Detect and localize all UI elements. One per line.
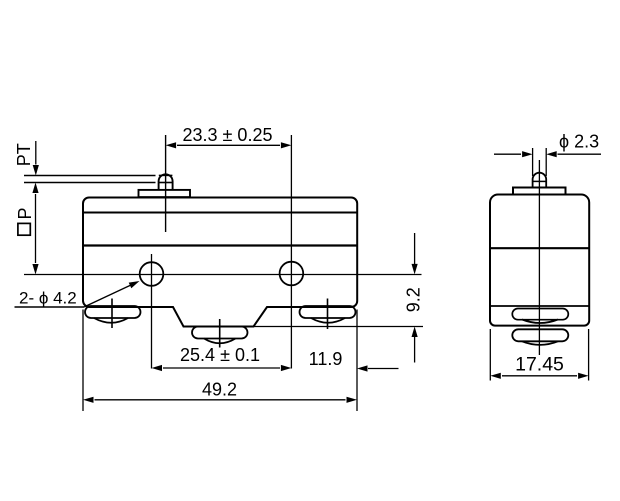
extension line left 17.45 <box>489 329 491 381</box>
svg-text:25.4 ± 0.1: 25.4 ± 0.1 <box>180 345 260 365</box>
operating position line <box>24 182 156 184</box>
dim line 49.2 <box>95 399 346 401</box>
extension line left 49.2 <box>82 310 84 412</box>
PT arrow <box>35 141 37 165</box>
svg-text:2- ϕ 4.2: 2- ϕ 4.2 <box>19 289 77 308</box>
side view centerline <box>538 160 540 355</box>
right hole vertical centerline / extension <box>290 135 292 369</box>
plunger centerline <box>165 135 167 232</box>
extension line right 17.45 <box>588 329 590 381</box>
side plunger pin with dome <box>533 173 547 188</box>
plunger pin (front view) <box>159 174 173 190</box>
side plunger plate <box>513 188 566 195</box>
svg-text:49.2: 49.2 <box>202 380 237 400</box>
svg-text:ϕ 2.3: ϕ 2.3 <box>559 132 599 152</box>
dim arrow 11.9 (outside right) <box>368 368 399 370</box>
dim line 25.4 <box>163 367 280 369</box>
svg-text:23.3 ± 0.25: 23.3 ± 0.25 <box>183 125 273 145</box>
switch body outline (front view) <box>83 198 357 327</box>
body internal line lower <box>83 244 357 246</box>
bottom/seating line right extension for 9.2 <box>184 326 424 328</box>
hole centerline horizontal <box>24 274 422 276</box>
left terminal screw <box>85 306 141 318</box>
label squareP <box>18 223 30 235</box>
9.2 dimension top arrow <box>414 233 416 264</box>
svg-text:PT: PT <box>14 143 34 166</box>
side body outline <box>490 195 589 326</box>
side pin extension lines <box>532 148 534 176</box>
left hole vertical centerline / extension <box>151 254 153 369</box>
svg-text:9.2: 9.2 <box>403 287 423 312</box>
center terminal screw <box>192 327 248 339</box>
right terminal screw <box>300 306 356 318</box>
plunger base plate (front view) <box>139 190 191 197</box>
dim line 17.45 <box>502 375 577 377</box>
extension line right 49.2 <box>356 310 358 412</box>
svg-text:P: P <box>15 207 35 219</box>
side terminal screw upper <box>512 309 568 320</box>
mounting hole left <box>140 262 164 286</box>
dim line 23.3 <box>177 144 280 146</box>
side terminal screw lower <box>512 329 568 341</box>
seat line extended left <box>15 306 85 308</box>
squareP dimension line <box>35 194 37 263</box>
free position line <box>24 175 156 177</box>
plunger pin chord line <box>159 182 173 184</box>
mounting hole right <box>280 262 304 286</box>
svg-text:11.9: 11.9 <box>309 349 343 369</box>
leader arrow 2-phi4.2 <box>84 285 132 308</box>
svg-text:17.45: 17.45 <box>515 354 564 376</box>
phi2.3 dim arrows <box>494 153 521 155</box>
side body internal line lower <box>490 305 589 307</box>
9.2 dimension bottom arrow <box>414 337 416 363</box>
side body internal line upper <box>490 247 589 249</box>
body internal line upper <box>83 212 357 214</box>
